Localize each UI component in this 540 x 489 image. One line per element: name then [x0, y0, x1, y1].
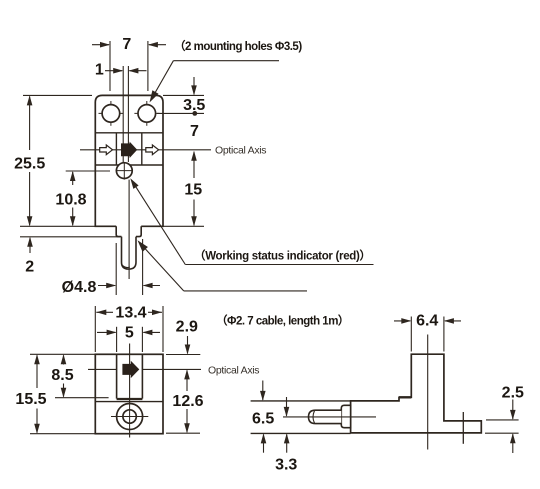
dim 5: right arrow	[142, 330, 160, 336]
svg-text:25.5: 25.5	[14, 155, 45, 172]
dim 8.5: lower extension line	[55, 397, 109, 399]
mounting hole right	[134, 101, 159, 126]
black optical arrow front view	[121, 142, 137, 158]
side view top edge extension left	[251, 400, 351, 402]
dim 3.3: down arrow	[284, 397, 290, 417]
svg-text:6.4: 6.4	[416, 313, 438, 330]
side view cable	[309, 410, 342, 423]
front view channel line left	[115, 133, 117, 165]
svg-text:（Φ2. 7 cable, length 1m）: （Φ2. 7 cable, length 1m）	[216, 313, 349, 327]
side view cable centerline	[283, 416, 376, 418]
dim 2.9: down arrow	[185, 336, 191, 355]
black optical arrow top view	[122, 361, 139, 378]
outline arrow left	[100, 145, 113, 155]
dim 10.8: vertical line with arrows	[70, 171, 76, 226]
svg-text:13.4: 13.4	[115, 305, 146, 322]
dim 8.5: top extension left	[30, 353, 95, 355]
svg-text:5: 5	[125, 325, 134, 342]
dim 7 top: left arrow	[92, 42, 110, 48]
svg-text:12.6: 12.6	[172, 393, 203, 410]
svg-text:15.5: 15.5	[15, 391, 46, 408]
svg-text:2.5: 2.5	[502, 385, 524, 402]
dim 7 top: right arrow	[148, 42, 166, 48]
cable front view	[122, 237, 137, 270]
cable bushing stub front view	[116, 226, 141, 236]
svg-text:Ø4.8: Ø4.8	[62, 279, 97, 296]
svg-text:15: 15	[184, 182, 202, 199]
leader mounting holes label	[150, 61, 280, 103]
dim 5: extension lines	[116, 327, 118, 352]
dim 15.5: vertical line with arrows	[34, 354, 40, 433]
dim 2.5: down arrow	[510, 400, 516, 420]
front view inner horizontal line lower	[95, 164, 163, 166]
dim 5: left arrow	[97, 330, 117, 336]
dim 2.9: top extension right	[166, 354, 200, 356]
svg-text:Optical Axis: Optical Axis	[208, 364, 259, 376]
dim 2.5: extension lines	[486, 419, 519, 421]
side view foot tick line	[462, 412, 464, 444]
svg-text:6.5: 6.5	[252, 410, 274, 427]
dim 10.8: extension line	[66, 170, 110, 172]
svg-text:3.5: 3.5	[183, 97, 205, 114]
dim 13.4: left out-arrow	[96, 310, 113, 316]
top view slot bottom	[117, 398, 143, 400]
dim 2: up arrow	[27, 237, 33, 253]
top view centerline	[129, 344, 131, 438]
cable cut end arc	[122, 265, 130, 267]
cable centerline front view	[128, 180, 130, 279]
dim 12.6: bottom extension right	[166, 432, 200, 434]
dim 25.5: vertical line with arrows	[27, 95, 33, 226]
indicator hole top view	[111, 404, 148, 430]
svg-text:10.8: 10.8	[55, 192, 86, 209]
extension line x=123.2 (dim 1 left)	[122, 66, 124, 163]
dim 1: right arrow	[128, 68, 146, 74]
dim 8.5: vertical line with arrows	[61, 354, 67, 397]
side view profile	[351, 354, 482, 433]
front view channel line right	[141, 133, 143, 165]
dim 6.4: left arrow	[394, 318, 411, 324]
side view bottom edge extension left	[251, 432, 351, 434]
dim 2: stub bottom extension	[20, 236, 120, 238]
dim 25.5: bottom extension left	[20, 225, 95, 227]
dim 13.4: right out-arrow	[148, 310, 162, 316]
top view slot left wall	[116, 354, 118, 398]
outline arrow right	[146, 145, 159, 155]
dim 13.4: extension lines	[94, 306, 96, 352]
svg-text:（Working status indicator (red: （Working status indicator (red)）	[194, 248, 371, 262]
dim 6.5: up arrow	[261, 433, 267, 452]
dim 12.6: vertical line with arrows	[184, 369, 190, 433]
svg-text:（2 mounting holes Φ3.5): （2 mounting holes Φ3.5)	[174, 39, 302, 53]
extension line x=128.4 (dim 1 right / center)	[127, 66, 129, 162]
svg-text:1: 1	[95, 62, 104, 79]
svg-text:8.5: 8.5	[51, 367, 73, 384]
indicator circle front view	[116, 162, 133, 180]
dim 3.5: hole centerline extension with dot	[157, 111, 204, 116]
dim 6.4: right arrow	[444, 318, 461, 324]
leader working status indicator	[130, 178, 373, 264]
dim 3.5: down arrow	[191, 77, 197, 95]
dim 1: left arrow	[105, 68, 123, 74]
svg-text:2: 2	[25, 258, 34, 275]
dim Ø4.8: left-pointing arrow	[143, 283, 160, 289]
top view outer body	[95, 354, 163, 433]
svg-text:Optical Axis: Optical Axis	[215, 144, 266, 156]
dim Ø4.8: extension lines	[115, 243, 117, 295]
svg-text:3.3: 3.3	[275, 456, 297, 473]
dim 6.5: down arrow	[260, 381, 266, 401]
svg-text:7: 7	[122, 36, 131, 53]
side view cable end arc	[313, 411, 315, 423]
side view ledge accent	[399, 396, 411, 398]
dim 15.5: bottom extension left	[30, 433, 95, 435]
dim 3.3: up arrow	[284, 433, 290, 452]
side view vertical centerline	[427, 335, 429, 450]
dim 15: bottom extension right	[163, 225, 204, 227]
front view body outline	[95, 95, 163, 226]
dim Ø4.8: right-pointing arrow	[98, 283, 116, 289]
side view bushing	[341, 405, 350, 427]
mounting hole left	[99, 101, 124, 126]
dim 2.5: up arrow	[510, 433, 516, 453]
dim 25.5: top extension left	[23, 94, 92, 96]
top view face line	[95, 401, 163, 403]
optical axis line front view	[80, 149, 211, 151]
dim 7 top: extension lines	[109, 41, 111, 91]
top view optical axis line	[88, 368, 117, 370]
svg-text:7: 7	[190, 123, 199, 140]
leader cable	[138, 240, 308, 291]
front view inner horizontal line upper	[95, 132, 163, 134]
top view slot right wall	[141, 354, 143, 398]
svg-text:2.9: 2.9	[176, 318, 198, 335]
dim 6.4: extension lines	[410, 317, 412, 352]
dim 15: vertical line with arrows	[191, 151, 197, 227]
dim 3.5: body top extension right	[163, 94, 204, 96]
